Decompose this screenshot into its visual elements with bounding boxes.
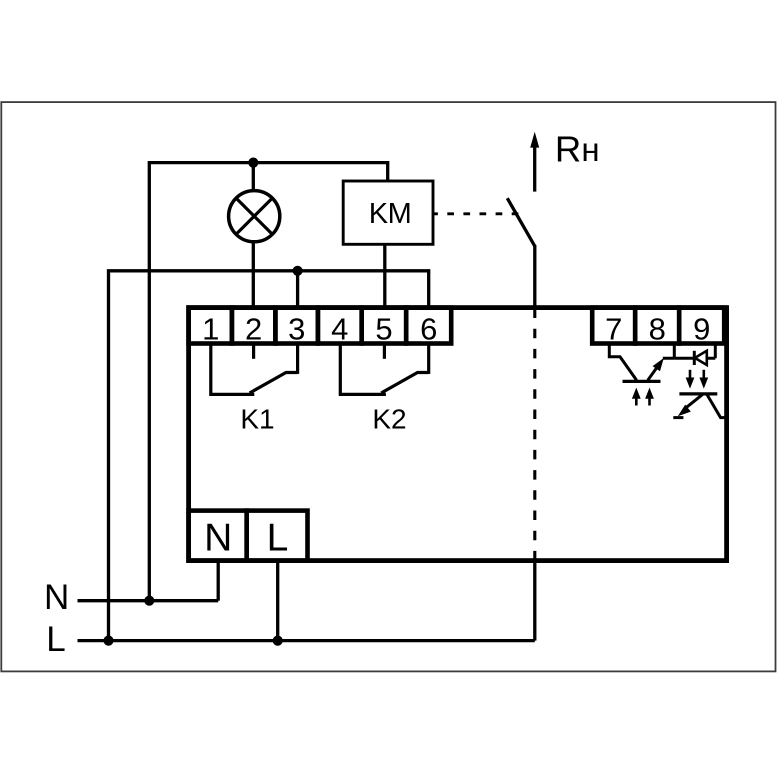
node junction L line left bbox=[103, 636, 113, 646]
photothyristor Q2 bar bbox=[679, 392, 717, 395]
phototransistor U1 collector lead from terminal 7 bbox=[609, 344, 636, 381]
relay contact K2: wire from terminal 4 bbox=[340, 344, 386, 395]
svg-text:7: 7 bbox=[605, 311, 622, 346]
wire terminal 5 stub bbox=[383, 344, 386, 359]
svg-text:1: 1 bbox=[202, 311, 219, 346]
svg-text:K1: K1 bbox=[240, 404, 274, 435]
wire top bus (KM top lead, top horizontal, left vertical down to N) bbox=[149, 163, 387, 601]
terminal 8 bbox=[635, 308, 679, 344]
wire lamp top lead bbox=[252, 163, 255, 192]
wire L terminal lead down bbox=[276, 561, 279, 641]
svg-text:9: 9 bbox=[693, 311, 710, 346]
svg-text:н: н bbox=[581, 131, 599, 168]
terminal 3 bbox=[275, 308, 318, 344]
wire switch to device (solid above) bbox=[533, 245, 536, 308]
wire L line bbox=[78, 639, 535, 642]
K1 blade bbox=[250, 373, 298, 394]
node junction lamp/top-wire bbox=[248, 158, 258, 168]
wire terminal 3 lead down bbox=[296, 344, 299, 374]
wire device bottom to L line bbox=[533, 561, 536, 641]
node junction N line bbox=[144, 596, 154, 606]
wire emitter to terminal 8 bbox=[663, 344, 675, 359]
device body bbox=[189, 308, 727, 561]
LED D1 triangle bbox=[695, 351, 707, 365]
terminal 5 bbox=[362, 308, 407, 344]
node junction L line mid bbox=[273, 636, 283, 646]
svg-text:R: R bbox=[555, 128, 581, 169]
svg-text:N: N bbox=[44, 578, 69, 617]
svg-text:L: L bbox=[267, 517, 289, 560]
svg-text:2: 2 bbox=[245, 311, 262, 346]
K2 blade bbox=[381, 373, 429, 394]
terminal 2 bbox=[232, 308, 276, 344]
svg-text:6: 6 bbox=[420, 311, 437, 346]
wire N line bbox=[78, 599, 219, 602]
svg-text:5: 5 bbox=[375, 311, 392, 346]
LED D1 cathode bar bbox=[693, 351, 696, 365]
switch SA blade bbox=[507, 198, 535, 246]
phototransistor light arrow a bbox=[635, 397, 638, 406]
wire KM bottom lead to terminal 5 bbox=[383, 244, 386, 307]
wire terminal 6 lead down bbox=[427, 344, 430, 374]
contactor coil KM bbox=[343, 181, 433, 244]
phototransistor light arrow b bbox=[648, 397, 651, 406]
terminal 1 bbox=[189, 308, 232, 344]
svg-text:4: 4 bbox=[331, 311, 348, 346]
LED light arrow a bbox=[689, 370, 692, 379]
relay contact K1: wire from terminal 1 bbox=[211, 344, 255, 395]
svg-text:K2: K2 bbox=[372, 404, 406, 435]
svg-text:3: 3 bbox=[288, 311, 305, 346]
wire mid bus (left vertical to L, horizontal, down to terminal 6) bbox=[109, 271, 429, 641]
phototransistor U1 base bar bbox=[623, 380, 661, 383]
wire lead to terminal 3 bbox=[296, 271, 299, 308]
node junction mid-wire/terminal-3 bbox=[293, 266, 303, 276]
terminal 4 bbox=[318, 308, 362, 344]
terminal 6 bbox=[406, 308, 451, 344]
photothyristor Q2 cathode arm with arrow bbox=[687, 394, 704, 407]
svg-text:L: L bbox=[46, 620, 65, 659]
LED light arrow b bbox=[702, 370, 705, 379]
border frame bbox=[1, 102, 775, 671]
wire LED to terminal 9 bbox=[707, 344, 716, 359]
phototransistor U1 emitter with arrow bbox=[648, 367, 658, 381]
svg-text:8: 8 bbox=[649, 311, 666, 346]
wire N terminal lead down bbox=[217, 561, 220, 601]
terminal L box bbox=[247, 511, 308, 561]
terminal 9 bbox=[679, 308, 724, 344]
wire terminal 2 stub bbox=[252, 344, 255, 359]
wire terminal 8 to LED bbox=[674, 357, 693, 360]
terminal N box bbox=[189, 511, 247, 561]
wire dashed mechanical link KM to switch bbox=[433, 212, 521, 215]
photothyristor Q2 anode arm to device edge bbox=[707, 394, 727, 418]
arrow to load Rn bbox=[533, 145, 536, 192]
svg-text:N: N bbox=[204, 517, 232, 560]
wire lamp bottom lead to terminal 2 bbox=[252, 242, 255, 308]
photothyristor Q2 cathode tick bbox=[673, 416, 683, 419]
wire dashed through device bbox=[533, 309, 536, 561]
svg-text:KM: KM bbox=[369, 198, 412, 230]
lamp HL bbox=[229, 191, 280, 242]
terminal 7 bbox=[592, 308, 635, 344]
